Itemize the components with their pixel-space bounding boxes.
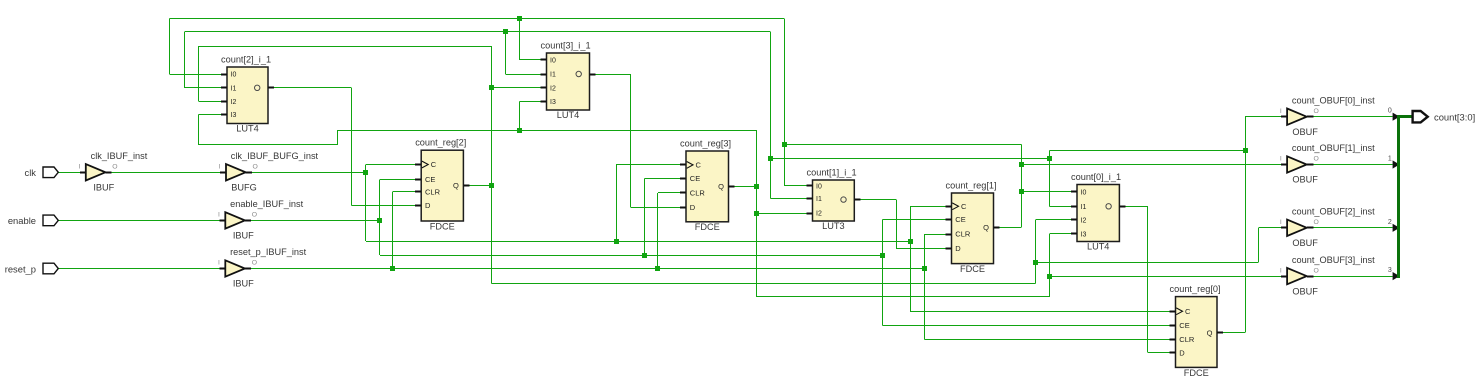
flip-flop count_reg[1] (FDCE): [952, 193, 994, 264]
wire count_reg[2].Q to count_OBUF[2] input: [1035, 262, 1258, 264]
IBUF buffer reset_p_IBUF_inst: [225, 260, 245, 276]
wire enable: port to IBUF: [58, 220, 219, 222]
pin D of count_reg[1]: [946, 248, 952, 250]
wire count_reg[3].Q to count[0]_i_1.I3: [1050, 233, 1072, 235]
wire count_OBUF[0] output to bus: [1307, 116, 1313, 118]
flip-flop count_reg[0] (FDCE): [1176, 297, 1218, 368]
svg-text:BUFG: BUFG: [231, 183, 257, 193]
svg-text:count_reg[1]: count_reg[1]: [946, 181, 997, 191]
input port clk: [43, 167, 58, 178]
wire clk_IBUF_BUFG horizontal run: [366, 241, 910, 243]
OBUF buffer count_OBUF[2]_inst: [1287, 220, 1307, 236]
svg-text:O: O: [112, 164, 117, 171]
IBUF buffer clk_IBUF_inst: [86, 164, 106, 180]
wire count_reg[0].Q vertical riser: [1245, 117, 1247, 333]
wire reset_p_IBUF vertical to count_reg[1].CLR and count_reg[0].CLR: [924, 234, 926, 339]
wire reset_p_IBUF to count_reg[2].CLR: [393, 191, 415, 193]
wire count_reg[3].Q output: [729, 186, 735, 188]
junction count_reg[3].Q at count[1]_i_1.I2 branch: [754, 211, 759, 216]
svg-text:I: I: [219, 164, 221, 171]
wire count_reg[1].Q output: [994, 227, 1000, 229]
svg-text:count_OBUF[0]_inst: count_OBUF[0]_inst: [1292, 95, 1375, 105]
wire count_reg[0].Q to count[1]_i_1.I1: [770, 198, 806, 200]
wire count_reg[0].Q output: [1217, 332, 1223, 334]
wire clk_IBUF: IBUF to BUFG: [105, 172, 111, 174]
wire count_reg[0].Q vertical to count[3]_i_1.I1: [505, 32, 507, 74]
pin I3 of count[0]_i_1: [1071, 233, 1077, 235]
svg-text:O: O: [252, 260, 257, 267]
svg-text:Q: Q: [983, 223, 989, 232]
svg-text:I1: I1: [1081, 204, 1087, 211]
svg-text:C: C: [1185, 307, 1191, 316]
svg-text:FDCE: FDCE: [430, 221, 455, 231]
pin I1 of count[0]_i_1: [1071, 206, 1077, 208]
svg-text:I0: I0: [1081, 189, 1087, 196]
pin I0 of count[1]_i_1: [807, 185, 813, 187]
svg-text:CE: CE: [955, 215, 965, 224]
pin CE of count_reg[2]: [415, 179, 421, 181]
wire clk_IBUF_BUFG to count_reg[0].C: [910, 311, 1169, 313]
svg-text:LUT4: LUT4: [557, 110, 579, 120]
svg-text:Q: Q: [453, 181, 459, 190]
wire count_reg[3].Q to count[2]_i_1.I3: [337, 130, 339, 145]
svg-text:I: I: [1280, 267, 1282, 274]
bus arrowhead bit 3: [1393, 272, 1400, 280]
pin CE of count_reg[1]: [946, 219, 952, 221]
junction count_reg[2].Q at count_OBUF[2] branch: [1033, 260, 1038, 265]
svg-text:I: I: [218, 212, 220, 219]
wire enable_IBUF vertical to count_reg[1].CE and count_reg[0].CE: [882, 219, 884, 325]
junction count_reg[1].Q at count[3]_i_1.I0 drop: [517, 16, 522, 21]
pin Q of count_reg[0]: [1217, 332, 1223, 334]
junction clk_IBUF_BUFG at count_reg[2].C drop: [363, 170, 368, 175]
junction reset_p_IBUF at count_reg[3].CLR drop: [655, 266, 660, 271]
wire count_reg[3].Q upper run: [338, 130, 757, 132]
svg-text:0: 0: [1388, 108, 1392, 115]
IBUF buffer enable_IBUF_inst: [225, 212, 245, 228]
wire count_OBUF[2] output to bus: [1307, 227, 1313, 229]
wire count_reg[0].Q to count[3]_i_1.I1: [506, 74, 541, 76]
svg-text:FDCE: FDCE: [960, 264, 985, 274]
svg-text:Q: Q: [718, 182, 724, 191]
wire reset_p_IBUF to count_reg[0].CLR: [924, 339, 1169, 341]
svg-text:FDCE: FDCE: [1184, 368, 1209, 378]
svg-text:O: O: [1314, 219, 1319, 226]
svg-text:I1: I1: [231, 85, 237, 92]
input port reset_p: [43, 263, 58, 274]
wire count_reg[2].Q vertical to count[0]_i_1.I2: [1035, 220, 1037, 284]
svg-text:CE: CE: [1179, 321, 1189, 330]
svg-text:IBUF: IBUF: [93, 183, 114, 193]
svg-text:enable_IBUF_inst: enable_IBUF_inst: [230, 199, 303, 209]
svg-text:I0: I0: [550, 58, 556, 65]
output pin O of count[2]_i_1: [268, 87, 274, 89]
svg-text:C: C: [431, 160, 437, 169]
svg-text:count[2]_i_1: count[2]_i_1: [221, 55, 271, 65]
svg-text:LUT3: LUT3: [822, 221, 844, 231]
wire count_reg[1].Q run to left: [784, 144, 1021, 146]
junction count_reg[0].Q at riser to top run: [768, 156, 773, 161]
pin Q of count_reg[2]: [463, 185, 469, 187]
pin I0 of count[2]_i_1: [221, 74, 227, 76]
svg-text:count_reg[3]: count_reg[3]: [680, 139, 731, 149]
svg-text:I3: I3: [231, 112, 237, 119]
flip-flop count_reg[2] (FDCE): [421, 150, 463, 221]
svg-text:I: I: [218, 260, 220, 267]
svg-text:clk_IBUF_inst: clk_IBUF_inst: [91, 151, 148, 161]
wire count_reg[0].Q to count[0]_i_1.I1: [1050, 206, 1072, 208]
svg-text:1: 1: [1388, 156, 1392, 163]
svg-text:count_reg[2]: count_reg[2]: [415, 138, 466, 148]
wire count_reg[2].Q vertical trunk: [491, 46, 493, 283]
output pin O of count[0]_i_1: [1119, 206, 1125, 208]
svg-text:I1: I1: [550, 72, 556, 79]
wire count_reg[1].Q to count[0]_i_1.I0: [1021, 191, 1071, 193]
pin C (clock) of count_reg[3]: [680, 164, 686, 166]
wire clk_IBUF_BUFG vertical to count_reg[3].C: [616, 165, 618, 241]
junction count_reg[2].Q junction: [489, 183, 494, 188]
junction count_reg[3].Q at count[3]_i_1.I3 riser: [517, 128, 522, 133]
svg-text:I3: I3: [1081, 232, 1087, 239]
wire count_reg[0].Q branch left: [1050, 150, 1246, 152]
junction enable_IBUF at count_reg[3].CE drop: [642, 253, 647, 258]
pin I1 of count[1]_i_1: [807, 198, 813, 200]
svg-text:IBUF: IBUF: [233, 231, 254, 241]
svg-text:OBUF: OBUF: [1292, 175, 1318, 185]
svg-text:C: C: [961, 202, 967, 211]
OBUF buffer count_OBUF[1]_inst: [1287, 156, 1307, 172]
svg-text:count[3:0]: count[3:0]: [1434, 111, 1475, 122]
svg-text:reset_p_IBUF_inst: reset_p_IBUF_inst: [230, 247, 307, 257]
wire count_reg[2].Q to count[3]_i_1.I2: [492, 87, 541, 89]
svg-text:CE: CE: [425, 175, 435, 184]
pin CLR of count_reg[1]: [946, 234, 952, 236]
wire reset_p: port to IBUF: [58, 268, 219, 270]
bus arrowhead bit 2: [1393, 224, 1400, 232]
bus count[3:0] to output port: [1397, 115, 1412, 118]
pin I2 of count[2]_i_1: [221, 101, 227, 103]
wire count_reg[3].Q lower run: [756, 296, 1049, 298]
LUT count[3]_i_1 (LUT4): [547, 53, 590, 110]
svg-text:3: 3: [1388, 267, 1392, 274]
svg-text:count_OBUF[1]_inst: count_OBUF[1]_inst: [1292, 143, 1375, 153]
wire count_reg[1].Q vertical riser left: [784, 18, 786, 186]
svg-text:2: 2: [1388, 219, 1392, 226]
svg-text:clk_IBUF_BUFG_inst: clk_IBUF_BUFG_inst: [231, 151, 319, 161]
wire count_reg[1].Q top run: [170, 18, 785, 20]
LUT count[0]_i_1 (LUT4): [1077, 185, 1119, 242]
svg-text:OBUF: OBUF: [1292, 127, 1318, 137]
svg-text:O: O: [1314, 267, 1319, 274]
svg-text:D: D: [1179, 348, 1185, 357]
svg-text:I: I: [1280, 156, 1282, 163]
svg-text:CLR: CLR: [690, 189, 706, 198]
svg-text:IBUF: IBUF: [233, 279, 254, 289]
svg-text:count[1]_i_1: count[1]_i_1: [807, 168, 857, 178]
svg-text:D: D: [690, 203, 696, 212]
bus arrowhead bit 0: [1393, 113, 1400, 121]
wire reset_p_IBUF to count_reg[1].CLR: [924, 234, 945, 236]
pin I0 of count[3]_i_1: [541, 59, 547, 61]
svg-text:I: I: [79, 164, 81, 171]
wire count_reg[0].Q run to left: [770, 158, 1049, 160]
wire count_reg[2].Q top run to count[2]_i_1.I2: [199, 46, 492, 48]
svg-text:D: D: [425, 201, 431, 210]
svg-text:count[3]_i_1: count[3]_i_1: [541, 41, 591, 51]
svg-text:I2: I2: [1081, 218, 1087, 225]
wire count_reg[2].Q bottom run: [492, 283, 1036, 285]
svg-text:count_reg[0]: count_reg[0]: [1170, 284, 1221, 294]
svg-text:CLR: CLR: [425, 187, 441, 196]
svg-text:OBUF: OBUF: [1292, 286, 1318, 296]
pin C (clock) of count_reg[2]: [415, 164, 421, 166]
output pin O of count[3]_i_1: [590, 74, 596, 76]
wire count_reg[0].Q to count_OBUF[0] input: [1245, 116, 1281, 118]
svg-text:O: O: [252, 164, 257, 171]
junction count_reg[2].Q at count[3]_i_1.I2 branch: [489, 85, 494, 90]
svg-text:C: C: [696, 161, 702, 170]
pin I0 of count[0]_i_1: [1071, 191, 1077, 193]
junction enable_IBUF at count_reg[1]/[0].CE drop: [880, 253, 885, 258]
wire enable_IBUF to count_reg[0].CE: [882, 325, 1169, 327]
wire count_reg[0].Q vertical riser left: [770, 32, 772, 199]
svg-text:O: O: [252, 212, 257, 219]
svg-text:count_OBUF[3]_inst: count_OBUF[3]_inst: [1292, 255, 1375, 265]
bus count[3:0] vertical: [1397, 115, 1400, 278]
wire clk_IBUF_BUFG: BUFG output: [246, 172, 252, 174]
BUFG buffer clk_IBUF_BUFG_inst: [226, 164, 246, 180]
svg-text:I2: I2: [550, 85, 556, 92]
pin I1 of count[3]_i_1: [541, 74, 547, 76]
wire count_reg[3].Q to count[1]_i_1.I2: [756, 213, 806, 215]
wire enable_IBUF to count_reg[1].CE: [882, 219, 945, 221]
wire enable_IBUF: IBUF output: [245, 220, 251, 222]
wire count_OBUF[1] output to bus: [1307, 164, 1313, 166]
wire reset_p_IBUF vertical to count_reg[3].CLR: [657, 193, 659, 269]
wire count_reg[1].Q to count[2]_i_1.I0: [170, 74, 222, 76]
wire enable_IBUF vertical to count_reg[2].CE: [379, 179, 381, 255]
wire clk: port to IBUF: [58, 172, 80, 174]
bus arrowhead bit 1: [1393, 160, 1400, 168]
LUT count[2]_i_1 (LUT4): [227, 67, 268, 124]
wire count_reg[1].Q vertical to count[3]_i_1.I0: [519, 18, 521, 60]
svg-text:I: I: [1280, 219, 1282, 226]
wire clk_IBUF_BUFG to count_reg[1].C: [910, 206, 945, 208]
LUT count[1]_i_1 (LUT3): [813, 180, 855, 221]
svg-text:clk: clk: [25, 167, 37, 178]
pin CLR of count_reg[0]: [1170, 339, 1176, 341]
pin CLR of count_reg[3]: [680, 192, 686, 194]
wire enable_IBUF to count_reg[3].CE: [645, 178, 680, 180]
wire count[1]_i_1.O to count_reg[1].D: [854, 199, 860, 201]
wire count_reg[3].Q vertical trunk: [756, 130, 758, 297]
svg-text:O: O: [1314, 156, 1319, 163]
wire count_reg[2].Q output: [463, 185, 469, 187]
svg-text:FDCE: FDCE: [695, 222, 720, 232]
pin CLR of count_reg[2]: [415, 191, 421, 193]
svg-text:LUT4: LUT4: [236, 124, 258, 134]
input port enable: [43, 215, 58, 226]
wire count_reg[3].Q to count_OBUF[3] input: [1050, 276, 1282, 278]
svg-text:I2: I2: [231, 99, 237, 106]
OBUF buffer count_OBUF[3]_inst: [1287, 268, 1307, 284]
pin I2 of count[3]_i_1: [541, 87, 547, 89]
junction count_reg[3].Q junction: [754, 184, 759, 189]
pin CE of count_reg[0]: [1170, 325, 1176, 327]
wire count_reg[0].Q vertical to count[2]_i_1.I1: [184, 32, 186, 88]
wire enable_IBUF vertical to count_reg[3].CE: [644, 178, 646, 255]
svg-text:I0: I0: [816, 184, 822, 191]
wire count_reg[1].Q vertical to count[2]_i_1.I0: [169, 18, 171, 74]
wire count[2]_i_1.O to count_reg[2].D: [268, 87, 274, 89]
junction count_reg[3].Q at count_OBUF[3] branch: [1047, 274, 1052, 279]
svg-text:CLR: CLR: [1179, 335, 1195, 344]
junction count_reg[1].Q at count[0]_i_1.I0 branch: [1019, 189, 1024, 194]
svg-text:count_OBUF[2]_inst: count_OBUF[2]_inst: [1292, 207, 1375, 217]
wire reset_p_IBUF: IBUF output run: [245, 268, 251, 270]
pin C (clock) of count_reg[0]: [1170, 311, 1176, 313]
junction count_reg[1].Q at riser to top run: [782, 142, 787, 147]
svg-text:Q: Q: [1207, 328, 1213, 337]
svg-text:I0: I0: [231, 72, 237, 79]
svg-text:reset_p: reset_p: [5, 263, 36, 274]
svg-text:LUT4: LUT4: [1087, 242, 1109, 252]
junction reset_p_IBUF at count_reg[1]/[0].CLR drop: [922, 266, 927, 271]
wire count_OBUF[3] output to bus: [1307, 276, 1313, 278]
junction enable_IBUF at count_reg[2].CE drop: [377, 218, 382, 223]
pin D of count_reg[3]: [680, 207, 686, 209]
junction count_reg[1].Q at count_OBUF[1] branch: [1019, 162, 1024, 167]
output pin O of count[1]_i_1: [854, 199, 860, 201]
svg-text:O: O: [1314, 108, 1319, 115]
wire count_reg[0].Q top run: [185, 31, 771, 33]
wire clk_IBUF_BUFG vertical to count_reg[2].C: [365, 165, 367, 242]
svg-text:I3: I3: [550, 99, 556, 106]
wire count_reg[1].Q to count[3]_i_1.I0: [519, 59, 540, 61]
svg-text:enable: enable: [8, 215, 36, 226]
pin I2 of count[1]_i_1: [807, 213, 813, 215]
pin I3 of count[3]_i_1: [541, 101, 547, 103]
pin I2 of count[0]_i_1: [1071, 219, 1077, 221]
svg-text:CLR: CLR: [955, 230, 971, 239]
wire count[0]_i_1.O to count_reg[0].D: [1119, 206, 1125, 208]
wire count_reg[2].Q to count[0]_i_1.I2: [1035, 219, 1071, 221]
wire count_reg[1].Q to count[1]_i_1.I0: [784, 185, 807, 187]
wire enable_IBUF to count_reg[2].CE: [380, 179, 415, 181]
svg-text:D: D: [955, 244, 961, 253]
wire count[3]_i_1.O to count_reg[3].D: [590, 74, 596, 76]
svg-text:count[0]_i_1: count[0]_i_1: [1071, 172, 1121, 182]
junction clk at count_reg[3].C drop: [614, 239, 619, 244]
wire clk_IBUF_BUFG to count_reg[3].C: [616, 164, 680, 166]
wire reset_p_IBUF to count_reg[3].CLR: [658, 192, 680, 194]
wire count_reg[1].Q vertical riser: [1021, 145, 1023, 228]
wire count_reg[0].Q vertical to count[0]_i_1.I1: [1049, 158, 1051, 206]
pin I3 of count[2]_i_1: [221, 114, 227, 116]
OBUF buffer count_OBUF[0]_inst: [1287, 109, 1307, 125]
pin Q of count_reg[3]: [729, 186, 735, 188]
pin Q of count_reg[1]: [994, 227, 1000, 229]
junction count_reg[0].Q branch: [1243, 148, 1248, 153]
output port count[3:0]: [1413, 111, 1428, 122]
svg-text:OBUF: OBUF: [1292, 238, 1318, 248]
wire reset_p_IBUF vertical to count_reg[2].CLR: [392, 192, 394, 269]
wire enable_IBUF horizontal run: [380, 255, 883, 257]
wire count_reg[0].Q to count[2]_i_1.I1: [185, 87, 221, 89]
flip-flop count_reg[3] (FDCE): [686, 151, 729, 222]
wire count_reg[1].Q to count_OBUF[1] input: [1021, 164, 1281, 166]
pin I1 of count[2]_i_1: [221, 87, 227, 89]
junction count_reg[0].Q at count[3]_i_1.I1 drop: [503, 29, 508, 34]
pin C (clock) of count_reg[1]: [946, 206, 952, 208]
wire count_reg[3].Q vertical to count[0]_i_1.I3: [1049, 234, 1051, 297]
junction clk at count_reg[1]/[0].C drop: [908, 239, 913, 244]
wire count_reg[3].Q to count[3]_i_1.I3: [519, 102, 521, 131]
pin D of count_reg[0]: [1170, 352, 1176, 354]
junction reset_p_IBUF at count_reg[2].CLR drop: [390, 266, 395, 271]
pin D of count_reg[2]: [415, 205, 421, 207]
svg-text:I: I: [1280, 108, 1282, 115]
svg-text:CE: CE: [690, 174, 700, 183]
svg-text:I1: I1: [816, 196, 822, 203]
junction count_reg[0].Q at count[0]_i_1.I1 drop: [1047, 156, 1052, 161]
wire clk_IBUF_BUFG vertical to count_reg[1].C and count_reg[0].C: [910, 206, 912, 311]
svg-text:I2: I2: [816, 211, 822, 218]
pin CE of count_reg[3]: [680, 178, 686, 180]
wire clk_IBUF_BUFG to count_reg[2].C: [366, 164, 415, 166]
